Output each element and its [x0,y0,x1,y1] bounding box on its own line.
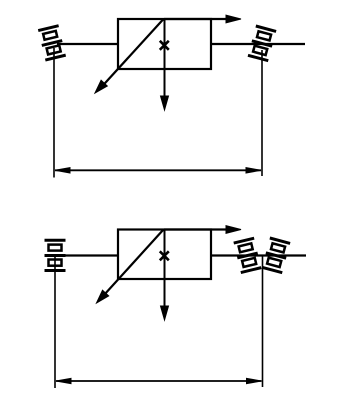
dimension line D1 (top diagram) [55,168,261,173]
wire W2 (box B1 to right, through symbol T2) [211,43,305,45]
valve body box B1 (top diagram) [118,19,211,69]
wire W1 (left symbol to box B1) [57,43,118,45]
transducer symbol T2 (top right, tilted) [248,26,276,61]
output arrow A2 (top right of box B1) [164,15,241,23]
extension line E2 (top right) [261,50,263,176]
transducer symbol T5 (bottom right pair, right, tilted) [262,238,290,273]
transducer symbol T1 (top left, tilted) [38,26,65,60]
wire W3 (left symbol to box B2) [45,254,119,256]
output arrow A5 (top right of box B2) [164,226,241,234]
branch arrow A3 (vertical, down from box B1) [161,19,169,110]
extension line E1 (top left) [53,48,55,178]
dimension line D2 (bottom diagram) [56,378,262,383]
branch arrow A6 (vertical, down from box B2) [161,230,169,321]
extension line E4 (bottom right) [262,256,264,387]
valve body box B2 (bottom diagram) [118,230,211,280]
wire W4 (box B2 to right, through symbols T4 T5) [211,254,306,256]
adjustment arrow A4 (diagonal through box B2) [97,230,164,304]
x mark X2 (inside box B2) [160,251,169,260]
x mark X1 (inside box B1) [160,41,169,50]
transducer symbol T3 (bottom left, upright) [45,240,66,270]
transducer symbol T4 (bottom right pair, left, tilted) [234,238,261,272]
extension line E3 (bottom left) [54,256,56,388]
adjustment arrow A1 (diagonal through box B1) [95,19,164,93]
